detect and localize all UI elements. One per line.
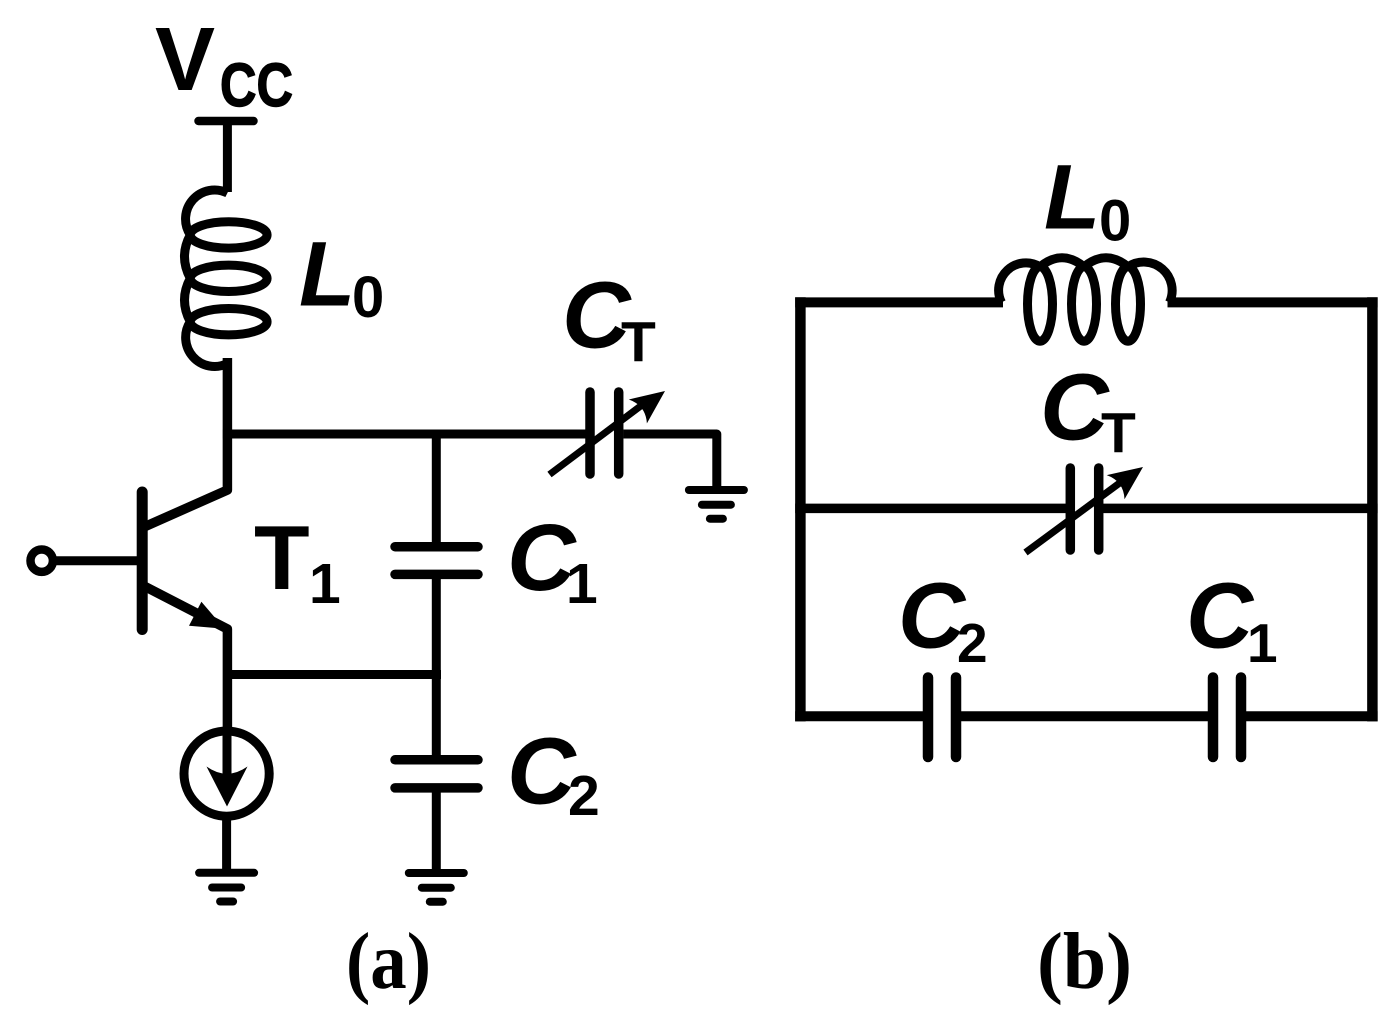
svg-text:1: 1 — [566, 552, 598, 616]
svg-text:1: 1 — [309, 552, 341, 616]
svg-text:C: C — [1186, 564, 1255, 668]
svg-text:(a): (a) — [346, 918, 431, 1006]
svg-text:T: T — [1101, 401, 1136, 465]
svg-text:0: 0 — [1099, 189, 1131, 254]
svg-text:T: T — [254, 508, 310, 609]
svg-text:2: 2 — [568, 764, 600, 828]
svg-text:CC: CC — [220, 51, 293, 119]
svg-text:T: T — [621, 310, 656, 374]
svg-text:C: C — [1040, 355, 1110, 461]
svg-text:V: V — [155, 10, 215, 110]
svg-text:0: 0 — [352, 265, 384, 330]
svg-text:L: L — [299, 224, 355, 326]
svg-text:C: C — [507, 719, 577, 825]
svg-text:2: 2 — [957, 612, 988, 674]
svg-text:(b): (b) — [1037, 918, 1132, 1006]
svg-text:L: L — [1044, 147, 1100, 249]
svg-text:1: 1 — [1247, 612, 1278, 674]
